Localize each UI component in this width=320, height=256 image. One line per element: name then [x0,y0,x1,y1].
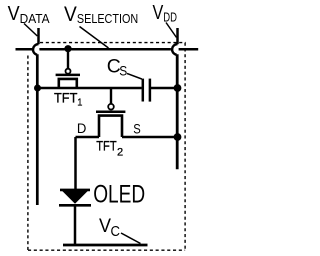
svg-text:DATA: DATA [20,11,50,26]
svg-text:V: V [8,3,21,25]
svg-text:DD: DD [163,11,177,25]
svg-text:C: C [111,224,121,240]
svg-text:V: V [64,3,77,26]
svg-text:S: S [119,63,127,79]
svg-text:2: 2 [117,146,123,158]
svg-text:S: S [133,122,141,137]
svg-text:V: V [99,215,111,237]
svg-text:D: D [77,121,87,136]
svg-text:TFT: TFT [54,90,77,105]
svg-text:SELECTION: SELECTION [77,11,138,26]
svg-text:V: V [153,2,164,24]
svg-text:1: 1 [77,96,82,108]
svg-text:OLED: OLED [93,181,145,209]
svg-text:TFT: TFT [96,137,117,153]
